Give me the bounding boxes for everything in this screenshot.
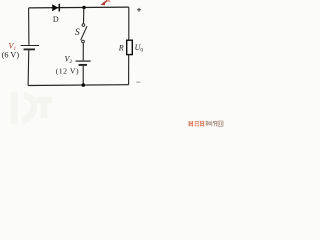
svg-text:(12 V): (12 V) [56, 66, 79, 75]
wire top [29, 6, 129, 9]
wire bottom [28, 84, 129, 87]
label + (polarity, top right) [137, 8, 141, 12]
battery V2 [76, 61, 91, 65]
resistor R [127, 40, 133, 54]
node B (junction dot, bottom) [82, 83, 86, 87]
battery V1 [21, 46, 39, 50]
svg-text:D: D [53, 15, 59, 24]
diode D [52, 4, 59, 12]
node A (junction dot, top) [82, 6, 85, 9]
svg-text:(6 V): (6 V) [2, 50, 20, 59]
wire right (upper, to resistor R) [128, 7, 130, 40]
switch S [81, 24, 87, 43]
svg-text:R: R [118, 43, 124, 52]
wire middle branch (battery V2 to bottom) [82, 65, 84, 85]
label - (polarity, bottom right) [136, 81, 140, 83]
watermark (orange CJK-style marks, bottom right) [188, 121, 223, 127]
faint print-through ghost (bottom left) [14, 92, 52, 124]
char 2 [194, 121, 199, 126]
wire left (upper, to battery V1) [28, 8, 30, 45]
char 6 [218, 121, 223, 126]
svg-text:S: S [75, 27, 80, 38]
char 5 [212, 121, 217, 126]
red annotation arrow [100, 0, 110, 5]
char 4 [206, 121, 211, 126]
wire left (lower, from battery V1 to bottom) [27, 49, 30, 85]
wire middle branch (node to switch) [83, 7, 85, 23]
wire right (lower, from resistor R to bottom) [128, 55, 130, 85]
wire middle branch (switch to battery V2) [82, 43, 84, 61]
char 1 [188, 121, 193, 127]
paper background [0, 0, 240, 135]
char 3 [200, 121, 205, 127]
